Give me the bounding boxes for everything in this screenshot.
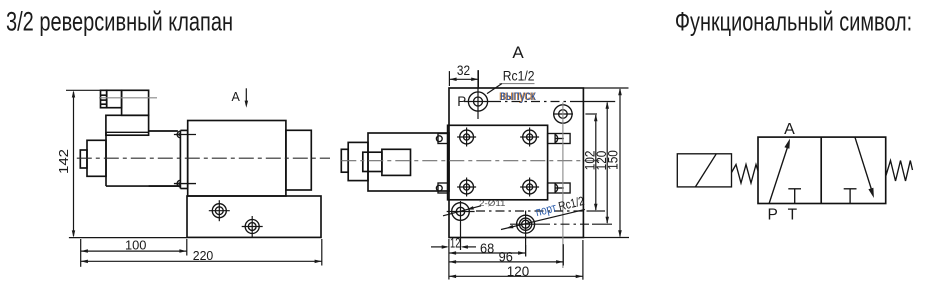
svg-text:120: 120 <box>507 263 530 279</box>
svg-text:выпуск: выпуск <box>500 87 536 103</box>
svg-text:A: A <box>232 90 241 104</box>
svg-text:150: 150 <box>605 150 621 170</box>
svg-text:3/2 реверсивный клапан: 3/2 реверсивный клапан <box>6 6 233 36</box>
svg-text:P: P <box>457 94 466 109</box>
svg-text:68: 68 <box>480 240 494 256</box>
svg-text:T: T <box>788 207 798 224</box>
svg-text:12: 12 <box>450 236 460 251</box>
svg-text:A: A <box>512 43 524 62</box>
svg-text:Функциональный символ:: Функциональный символ: <box>675 6 912 36</box>
svg-text:2-Ø11: 2-Ø11 <box>479 198 506 208</box>
svg-text:P: P <box>768 207 778 224</box>
svg-text:32: 32 <box>457 63 470 78</box>
svg-text:220: 220 <box>193 248 214 263</box>
svg-text:Rc1/2: Rc1/2 <box>503 67 535 83</box>
svg-text:142: 142 <box>56 149 71 174</box>
svg-text:100: 100 <box>125 237 147 252</box>
svg-text:A: A <box>784 121 795 138</box>
